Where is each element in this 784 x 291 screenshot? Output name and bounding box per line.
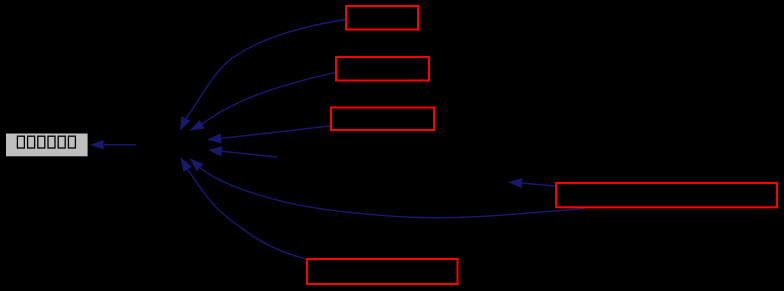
edge: bottom box -> center node (curved) (180, 157, 306, 259)
edge: right box -> hidden node2 (short arrow) (508, 178, 555, 188)
node: box2 (red border) (336, 57, 429, 81)
node: current file (grey filled box) (6, 134, 88, 157)
edge: box3 -> center node (near-straight) (207, 126, 330, 143)
edge: box2 -> center node (curved) (190, 73, 335, 131)
node: bottom box (red border) (307, 259, 458, 284)
edge: box1 -> center node (curved) (180, 20, 345, 131)
node: right box (red border, long) (556, 183, 777, 207)
edge: hidden node2 -> center node (short line) (208, 146, 277, 157)
node: box3 (red border) (331, 108, 434, 131)
node: box1 (red border, top) (346, 6, 418, 30)
edge: right box -> center node (long bottom curve) (190, 158, 585, 217)
missing-glyph (tofu) characters inside grey node (17, 136, 24, 148)
edge: center node -> grey node (arrow to grey box) (90, 140, 136, 149)
